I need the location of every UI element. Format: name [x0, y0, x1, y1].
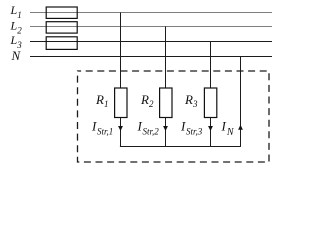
- fuse on L3: [46, 37, 77, 50]
- wire line L1: [30, 12, 272, 14]
- fuse on L1: [46, 7, 77, 18]
- resistor R2: [160, 88, 172, 118]
- fuse on L2: [46, 22, 77, 33]
- svg-text:R1: R1: [95, 92, 108, 109]
- svg-text:R2: R2: [140, 92, 154, 109]
- current arrow I_N (upward): [238, 125, 243, 130]
- resistor R3: [204, 88, 216, 118]
- wire line L3: [30, 41, 272, 43]
- bottom bus wire: [120, 146, 241, 148]
- wire line L2: [30, 26, 272, 28]
- current arrow I_Str,1: [118, 126, 123, 131]
- wire from R1 down to bus: [120, 118, 122, 147]
- wire from R3 down to bus: [210, 118, 212, 147]
- svg-text:IStr,3: IStr,3: [180, 119, 203, 137]
- dashed enclosure box: [78, 71, 270, 162]
- svg-text:L1: L1: [10, 3, 22, 20]
- current arrow I_Str,2: [163, 126, 168, 131]
- wire from L2 down to R2: [165, 27, 167, 89]
- wire from L1 down to R1: [120, 13, 122, 89]
- svg-text:IStr,2: IStr,2: [137, 119, 160, 137]
- svg-text:IStr,1: IStr,1: [91, 119, 113, 137]
- svg-text:IN: IN: [221, 119, 235, 139]
- wire from R2 down to bus: [165, 118, 167, 147]
- svg-text:R3: R3: [184, 92, 198, 109]
- current arrow I_Str,3: [208, 126, 213, 131]
- wire line N: [30, 56, 272, 58]
- wire from N down to bus: [240, 57, 242, 147]
- resistor R1: [115, 88, 127, 118]
- svg-text:N: N: [11, 48, 22, 63]
- wire from L3 down to R3: [210, 42, 212, 89]
